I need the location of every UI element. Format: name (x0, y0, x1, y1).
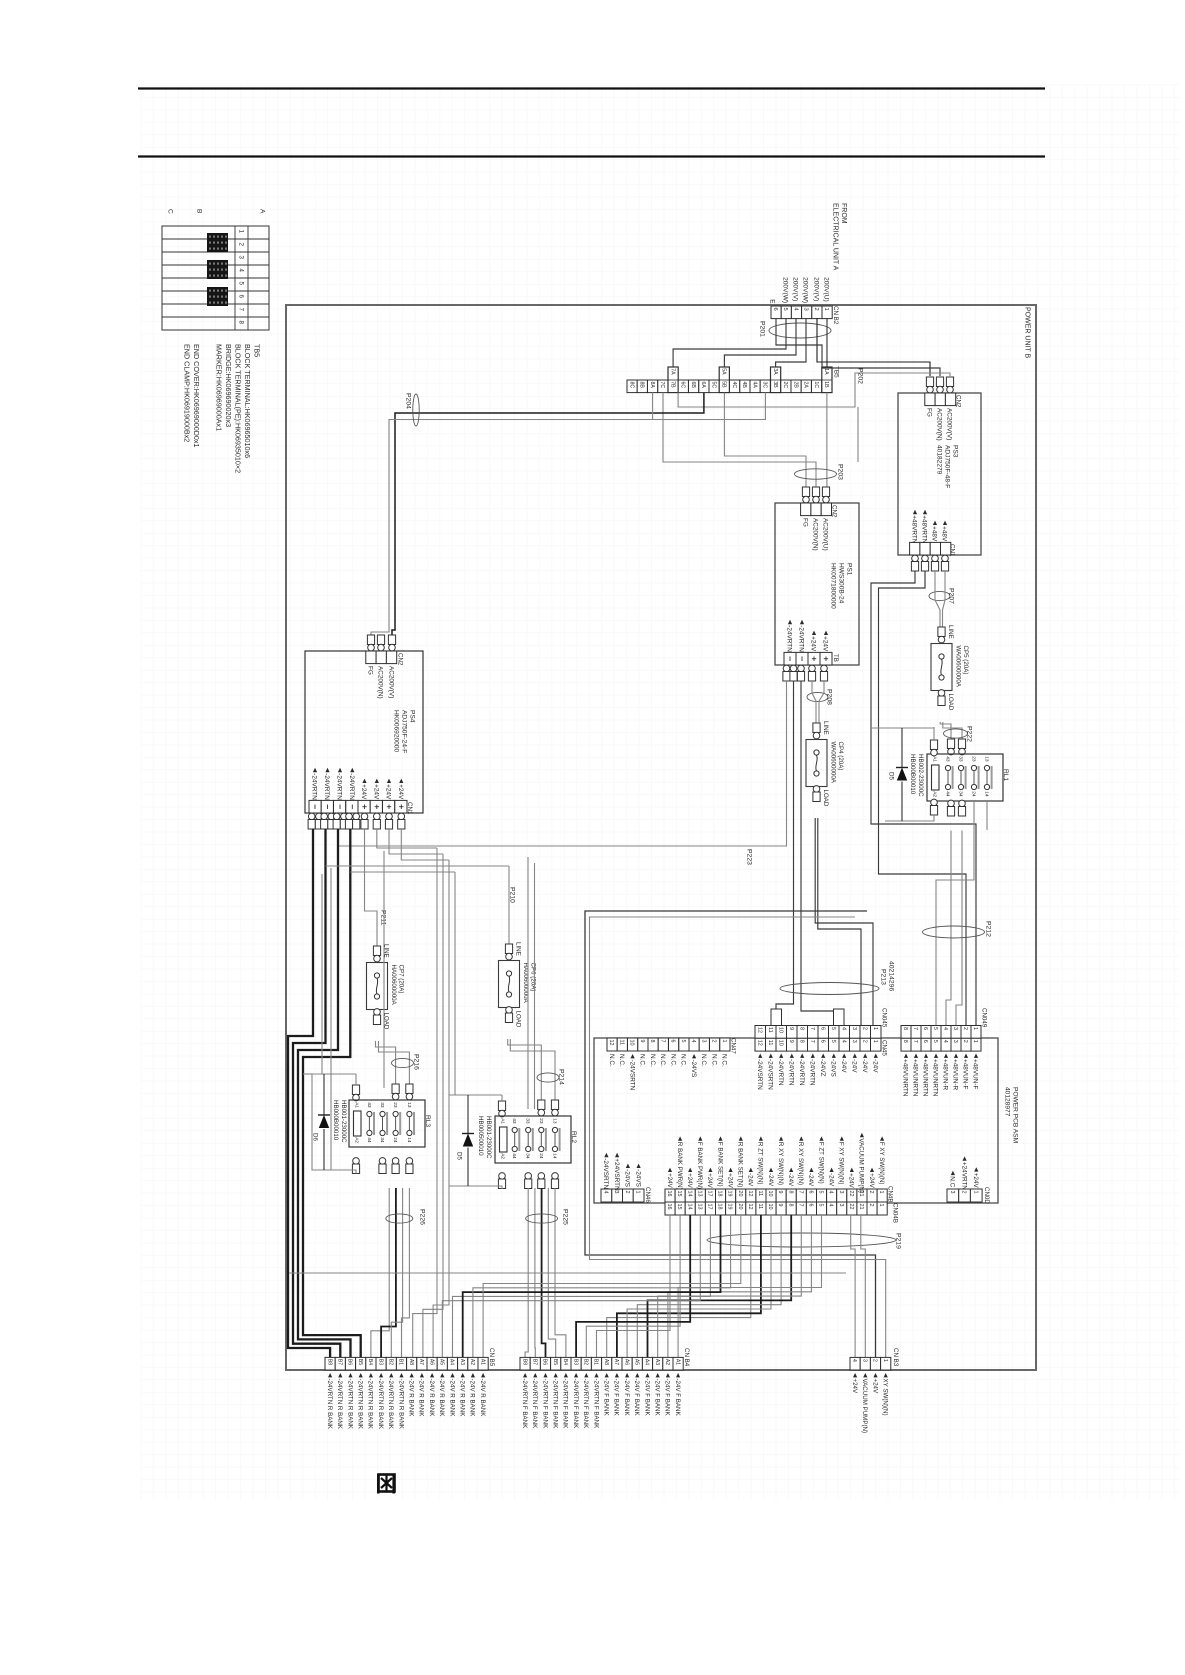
svg-text:CP6 (20A): CP6 (20A) (529, 963, 536, 992)
svg-text:4B: 4B (741, 382, 747, 389)
svg-text:4: 4 (840, 1027, 846, 1030)
svg-text:3: 3 (851, 1040, 857, 1043)
svg-text:A1: A1 (674, 1359, 680, 1365)
svg-text:200V(W): 200V(W) (782, 277, 789, 303)
svg-text:AC200V(N): AC200V(N) (377, 666, 384, 699)
svg-text:-24VRTN: -24VRTN (798, 1059, 805, 1086)
svg-text:B1: B1 (398, 1359, 404, 1365)
svg-text:43: 43 (366, 1102, 372, 1108)
wire TB5 3C jumper to PS4 CN2 (371, 393, 765, 652)
svg-text:200V(V): 200V(V) (813, 277, 820, 301)
svg-text:P212: P212 (985, 921, 992, 937)
relay RL1 (947, 739, 954, 749)
svg-text:END CLAMP:HK06919000Bx2: END CLAMP:HK06919000Bx2 (182, 344, 191, 442)
svg-text:-24V R BANK: -24V R BANK (428, 1379, 435, 1418)
svg-text:34: 34 (525, 1153, 531, 1159)
svg-text:AC200V(V): AC200V(V) (388, 666, 395, 698)
diode D5 across RL1 coil (901, 728, 903, 768)
svg-text:-24VSRTN: -24VSRTN (767, 1059, 774, 1090)
svg-text:6: 6 (819, 1027, 825, 1030)
svg-text:CN B2: CN B2 (832, 306, 839, 325)
svg-text:+48VRTN: +48VRTN (921, 515, 928, 544)
svg-text:CN2: CN2 (954, 395, 961, 408)
svg-text:40214296: 40214296 (888, 961, 895, 991)
svg-text:CN045: CN045 (880, 1008, 887, 1028)
svg-text:F BANK SET(N): F BANK SET(N) (716, 1142, 723, 1187)
wire CN B2-4 to TB5 5A (724, 318, 796, 367)
svg-text:+48VUN-F: +48VUN-F (962, 1059, 969, 1089)
svg-text:5: 5 (830, 1027, 836, 1030)
svg-text:B1: B1 (593, 1359, 599, 1365)
svg-text:-24VRTN F BANK: -24VRTN F BANK (531, 1379, 538, 1430)
cable marker P208 (807, 692, 828, 701)
svg-text:AC200V(N): AC200V(N) (812, 518, 819, 551)
svg-text:-24VRTN F BANK: -24VRTN F BANK (582, 1379, 589, 1430)
svg-text:-24VSRTN: -24VSRTN (756, 1059, 763, 1090)
svg-text:2: 2 (813, 308, 819, 311)
svg-text:44: 44 (511, 1153, 517, 1159)
svg-text:A7: A7 (613, 1359, 619, 1365)
svg-text:B8: B8 (521, 1359, 527, 1365)
svg-text:1: 1 (878, 1191, 884, 1194)
connector CN4B board side (665, 1189, 675, 1202)
svg-text:R XY SW(N)(N): R XY SW(N)(N) (777, 1142, 784, 1185)
svg-text:B2: B2 (583, 1359, 589, 1365)
wire P223 PS1 TB pin1 to -24V bus (338, 681, 787, 846)
svg-text:1: 1 (878, 1204, 884, 1207)
svg-text:6B: 6B (690, 382, 696, 389)
wire PS3 CN1 pin1 down left of RL1 to CN049 pin4 (871, 571, 976, 1026)
svg-text:P207: P207 (948, 588, 955, 604)
svg-text:+48VUN-F: +48VUN-F (972, 1059, 979, 1089)
svg-text:2: 2 (961, 1191, 967, 1194)
svg-text:-24V: -24V (807, 1173, 814, 1187)
svg-text:+24V: +24V (373, 784, 380, 800)
svg-text:-24VRTN F BANK: -24VRTN F BANK (562, 1379, 569, 1430)
svg-text:A8: A8 (408, 1359, 414, 1365)
connector CN2 of PS1 (802, 487, 809, 497)
wire CN B2-5 to TB5 7A (673, 318, 786, 367)
svg-text:P201: P201 (759, 321, 766, 337)
svg-text:24: 24 (538, 1153, 544, 1159)
wires bus verticals to CN B5 A cells (413, 1231, 437, 1358)
svg-text:LINE: LINE (382, 944, 389, 958)
svg-text:-24V R BANK: -24V R BANK (418, 1379, 425, 1418)
svg-text:200V(W): 200V(W) (802, 277, 809, 303)
svg-text:3A: 3A (772, 368, 778, 375)
connector CN B5 (325, 1357, 335, 1370)
svg-text:10: 10 (629, 1040, 635, 1046)
svg-text:HB001-23000C: HB001-23000C (340, 1100, 347, 1143)
svg-text:19: 19 (727, 1191, 733, 1197)
svg-text:WA00600000A: WA00600000A (829, 742, 836, 784)
svg-text:+24V: +24V (851, 1379, 858, 1394)
svg-text:+48VUN-R: +48VUN-R (952, 1059, 959, 1090)
wire -24VRTN black bus from PS4 (4 wires) (288, 829, 330, 1358)
svg-text:2: 2 (962, 1040, 968, 1043)
svg-text:P203: P203 (837, 464, 844, 480)
svg-text:WA00600000A: WA00600000A (954, 646, 961, 688)
svg-text:D6: D6 (311, 1133, 318, 1141)
svg-text:D5: D5 (455, 1152, 462, 1160)
svg-text:4: 4 (942, 1027, 948, 1030)
wire pair CP7 LOAD to RL3 via P216 (376, 1041, 396, 1084)
svg-text:R XY SW(N)(N): R XY SW(N)(N) (797, 1142, 804, 1185)
svg-text:200V(V): 200V(V) (792, 277, 799, 301)
svg-text:P211: P211 (380, 910, 387, 926)
svg-text:R BANK PWR(N): R BANK PWR(N) (676, 1142, 683, 1190)
connector CN049 cable side (901, 1026, 911, 1039)
svg-text:HA00600000A: HA00600000A (390, 965, 397, 1006)
svg-text:+48VUNRTN: +48VUNRTN (932, 1059, 939, 1097)
wire TB5 6A jumper to PS4 CN2 (black) (392, 393, 704, 652)
svg-text:44: 44 (366, 1137, 372, 1143)
svg-text:LOAD: LOAD (822, 790, 829, 807)
svg-text:-24VRTN R BANK: -24VRTN R BANK (377, 1379, 384, 1430)
svg-text:1: 1 (882, 1359, 888, 1362)
svg-text:11: 11 (757, 1204, 763, 1210)
svg-text:B6: B6 (347, 1359, 353, 1365)
wire -24V tap to CP6 (508, 866, 510, 944)
connector CN04B board side (901, 1038, 911, 1051)
wire CN B2-1 to TB5 1A (826, 318, 828, 367)
svg-text:7: 7 (912, 1040, 918, 1043)
wire RL1 contact 14 stub (986, 801, 988, 830)
svg-text:HB001-23000C: HB001-23000C (485, 1116, 492, 1159)
svg-text:B7: B7 (337, 1359, 343, 1365)
svg-text:A1: A1 (353, 1102, 359, 1108)
svg-text:A5: A5 (439, 1359, 445, 1365)
svg-text:B4: B4 (562, 1359, 568, 1365)
svg-text:3: 3 (851, 1027, 857, 1030)
svg-text:-24V: -24V (840, 1059, 847, 1073)
svg-text:24: 24 (392, 1137, 398, 1143)
svg-text:A7: A7 (418, 1359, 424, 1365)
connector TB of PS1 (784, 652, 796, 665)
svg-text:14: 14 (686, 1204, 692, 1210)
svg-text:B3: B3 (377, 1359, 383, 1365)
cable marker P212 (923, 926, 985, 938)
svg-text:R BANK SET(N): R BANK SET(N) (737, 1142, 744, 1187)
svg-text:2: 2 (711, 1040, 717, 1043)
svg-text:A1: A1 (479, 1359, 485, 1365)
svg-text:-24VRTN F BANK: -24VRTN F BANK (521, 1379, 528, 1430)
svg-text:1C: 1C (813, 382, 819, 389)
wire pair CP6 LOAD to RL2 via P214 (508, 1039, 542, 1100)
wire RL2 coil loop (501, 1095, 503, 1101)
svg-text:10: 10 (767, 1191, 773, 1197)
svg-text:8: 8 (787, 1204, 793, 1207)
wire TB5 7B to PS3 CN2 pin3 via P202 (678, 373, 950, 407)
svg-text:-24VS: -24VS (624, 1169, 631, 1187)
svg-text:AC200V(N): AC200V(N) (936, 408, 943, 441)
cable marker P219 (707, 1233, 896, 1247)
svg-text:-24V R BANK: -24V R BANK (408, 1379, 415, 1418)
svg-text:9: 9 (777, 1204, 783, 1207)
connector CN47 (607, 1038, 617, 1051)
svg-text:5B: 5B (721, 381, 727, 388)
svg-text:-24VRTN R BANK: -24VRTN R BANK (326, 1379, 333, 1430)
wire TB5 5C to PS1 CN2 left pin (724, 393, 806, 487)
svg-text:7: 7 (237, 308, 244, 312)
connector CN B4 (520, 1357, 530, 1370)
svg-text:P216: P216 (413, 1054, 420, 1070)
svg-text:12: 12 (756, 1040, 762, 1046)
svg-text:CN4B: CN4B (886, 1186, 893, 1203)
svg-text:11: 11 (767, 1040, 773, 1046)
svg-text:13: 13 (406, 1102, 412, 1108)
svg-text:CN1: CN1 (406, 802, 413, 815)
svg-text:PS1: PS1 (846, 563, 853, 576)
svg-text:3: 3 (803, 308, 809, 311)
svg-text:-24V F BANK: -24V F BANK (654, 1379, 661, 1417)
svg-text:34: 34 (379, 1137, 385, 1143)
svg-text:HB000B00010: HB000B00010 (909, 754, 916, 795)
svg-text:LINE: LINE (822, 721, 829, 735)
svg-text:6: 6 (808, 1204, 814, 1207)
svg-text:-24VRTN F BANK: -24VRTN F BANK (592, 1379, 599, 1430)
svg-text:FG: FG (926, 408, 933, 417)
svg-text:VACUUM PUMP(N): VACUUM PUMP(N) (858, 1138, 865, 1193)
wire RL1 coil A1 loop (933, 727, 935, 740)
pcb POWER PCB ASM (594, 1038, 998, 1203)
svg-text:5: 5 (237, 282, 244, 286)
svg-text:33: 33 (958, 756, 964, 762)
svg-text:14: 14 (552, 1153, 558, 1159)
relay RL3 (392, 1084, 399, 1094)
cable marker P204 (413, 394, 419, 426)
svg-text:A3: A3 (459, 1359, 465, 1365)
figure mark (379, 1475, 395, 1492)
svg-text:A6: A6 (428, 1359, 434, 1365)
wires CN04B to CN B3 cells 4 3 (851, 1215, 855, 1358)
svg-text:40182279: 40182279 (936, 445, 943, 475)
wire -24V bus tap to RL2 loop top (449, 872, 455, 1095)
svg-text:22: 22 (848, 1204, 854, 1210)
svg-text:N.C.: N.C. (721, 1054, 728, 1067)
svg-text:14: 14 (686, 1191, 692, 1197)
svg-text:5: 5 (932, 1027, 938, 1030)
svg-text:-24VRTN R BANK: -24VRTN R BANK (357, 1379, 364, 1430)
svg-text:9: 9 (777, 1191, 783, 1194)
svg-text:P208: P208 (826, 689, 833, 705)
svg-text:F XY SW(N)(N): F XY SW(N)(N) (878, 1142, 885, 1185)
svg-text:8A: 8A (649, 382, 655, 389)
svg-text:XY SW(N)(N): XY SW(N)(N) (882, 1379, 889, 1416)
svg-text:4: 4 (690, 1040, 696, 1043)
svg-text:16: 16 (666, 1204, 672, 1210)
svg-text:C: C (167, 209, 174, 214)
svg-text:+24VRTN: +24VRTN (960, 1162, 967, 1191)
svg-text:CN B3: CN B3 (892, 1348, 899, 1367)
svg-text:8: 8 (237, 321, 244, 325)
svg-text:-24VZ: -24VZ (819, 1059, 826, 1076)
svg-text:4: 4 (828, 1191, 834, 1194)
svg-text:5A: 5A (721, 368, 727, 375)
svg-text:+24V: +24V (686, 1173, 693, 1188)
svg-text:B5: B5 (357, 1359, 363, 1365)
svg-text:CN0D: CN0D (983, 1187, 990, 1204)
svg-text:4: 4 (828, 1204, 834, 1207)
svg-text:10: 10 (777, 1027, 783, 1033)
svg-text:43: 43 (945, 756, 951, 762)
connector CN2 of PS3 (926, 377, 933, 387)
svg-text:8: 8 (798, 1027, 804, 1030)
svg-text:3C: 3C (762, 382, 768, 389)
svg-text:34: 34 (958, 791, 964, 797)
svg-text:2: 2 (861, 1027, 867, 1030)
svg-text:-24V: -24V (767, 1173, 774, 1187)
svg-text:+48VRTN: +48VRTN (911, 515, 918, 544)
svg-text:6: 6 (922, 1040, 928, 1043)
svg-text:2: 2 (868, 1191, 874, 1194)
wire PS4 +24V pin6 down to bus right (377, 829, 437, 848)
svg-text:POWER UNIT B: POWER UNIT B (1024, 307, 1031, 359)
svg-text:-24VRTN: -24VRTN (348, 773, 355, 800)
wire PS3 CN1 pin2 down left of RL1 to CN049 pin3 (879, 571, 967, 1026)
svg-text:-24VSRTN: -24VSRTN (628, 1060, 635, 1091)
wire PS4 +24V pin8 to bus (401, 829, 449, 860)
svg-text:P210: P210 (509, 887, 516, 903)
svg-text:-24V R BANK: -24V R BANK (448, 1379, 455, 1418)
svg-text:8B: 8B (639, 382, 645, 389)
svg-text:6C: 6C (680, 382, 686, 389)
wire PS4 +24V pin5 to CP7 chain (365, 829, 378, 946)
svg-text:A2: A2 (499, 1153, 505, 1159)
svg-text:4: 4 (840, 1040, 846, 1043)
svg-text:CN04B: CN04B (891, 1203, 898, 1223)
wire RL3 coil feed verticals (321, 874, 323, 1074)
svg-text:-24V F BANK: -24V F BANK (643, 1379, 650, 1417)
svg-text:E: E (769, 299, 776, 304)
svg-text:4: 4 (942, 1040, 948, 1043)
svg-text:N.C.: N.C. (649, 1054, 656, 1067)
wire TB5 8A to P204 run (652, 393, 654, 420)
svg-text:A6: A6 (623, 1359, 629, 1365)
svg-text:-24VRTN: -24VRTN (336, 773, 343, 800)
svg-text:-24V F BANK: -24V F BANK (603, 1379, 610, 1417)
svg-text:LINE: LINE (514, 942, 521, 956)
wire RL3 coil loop (355, 1074, 357, 1085)
svg-text:A2: A2 (931, 791, 937, 797)
connector CN0D (947, 1189, 959, 1202)
svg-text:23: 23 (971, 756, 977, 762)
svg-text:CP7 (20A): CP7 (20A) (397, 965, 404, 994)
svg-text:1B: 1B (823, 381, 829, 388)
connector CN04B cable side (665, 1202, 675, 1215)
svg-text:FG: FG (802, 518, 809, 527)
wire CP5 LOAD to RL1 contacts via P222 (940, 722, 951, 739)
svg-text:7: 7 (660, 1040, 666, 1043)
svg-text:7: 7 (809, 1027, 815, 1030)
svg-text:6: 6 (670, 1040, 676, 1043)
svg-text:-24V R BANK: -24V R BANK (469, 1379, 476, 1418)
diode D5 across RL2 coil (467, 1095, 469, 1134)
svg-text:-24VRTN: -24VRTN (809, 1059, 816, 1086)
svg-text:LOAD: LOAD (947, 694, 954, 711)
svg-text:-24V R BANK: -24V R BANK (479, 1379, 486, 1418)
svg-text:+24V: +24V (868, 1173, 875, 1188)
svg-text:N.C.: N.C. (618, 1054, 625, 1067)
svg-text:20: 20 (737, 1204, 743, 1210)
svg-text:33: 33 (525, 1118, 531, 1124)
svg-text:P213: P213 (880, 969, 887, 985)
svg-text:21: 21 (858, 1204, 864, 1210)
cable marker P222 (944, 729, 968, 738)
wire bundle RL2 to CN B4 via P225 (525, 1188, 528, 1358)
svg-text:18: 18 (717, 1204, 723, 1210)
svg-text:-24VRTN R BANK: -24VRTN R BANK (387, 1379, 394, 1430)
faint grid (141, 85, 1180, 1500)
svg-text:N.C.: N.C. (710, 1054, 717, 1067)
wire TB5 1B to PS1 CN2 right pin (826, 393, 828, 487)
svg-text:FG: FG (367, 666, 374, 675)
svg-text:7C: 7C (659, 382, 665, 389)
svg-text:A5: A5 (634, 1359, 640, 1365)
svg-text:5: 5 (818, 1204, 824, 1207)
svg-text:2B: 2B (792, 382, 798, 389)
svg-text:2: 2 (868, 1204, 874, 1207)
svg-text:+48V: +48V (931, 526, 938, 542)
svg-text:CN45: CN45 (880, 1040, 887, 1056)
svg-text:A4: A4 (449, 1359, 455, 1365)
svg-text:8: 8 (787, 1191, 793, 1194)
svg-text:7: 7 (912, 1027, 918, 1030)
svg-text:N.C.: N.C. (680, 1054, 687, 1067)
svg-text:P223: P223 (746, 849, 753, 865)
svg-text:ADJ750F-24-F: ADJ750F-24-F (401, 710, 408, 753)
svg-text:VACUUM PUMP(N): VACUUM PUMP(N) (861, 1379, 868, 1434)
connector CN1 of PS3 (910, 542, 920, 555)
svg-text:B8: B8 (326, 1359, 332, 1365)
svg-text:12: 12 (756, 1027, 762, 1033)
svg-text:3: 3 (237, 256, 244, 260)
cable marker P203 (795, 469, 837, 479)
wire PS4 +24V pin7 to bus (389, 829, 443, 854)
svg-text:AC200V(V): AC200V(V) (946, 408, 953, 440)
svg-text:20: 20 (737, 1191, 743, 1197)
svg-text:N.C.: N.C. (608, 1054, 615, 1067)
svg-text:-24VRTN F BANK: -24VRTN F BANK (572, 1379, 579, 1430)
svg-text:2: 2 (624, 1191, 630, 1194)
svg-text:15: 15 (676, 1204, 682, 1210)
svg-text:6A: 6A (700, 382, 706, 389)
svg-text:LINE: LINE (947, 625, 954, 639)
svg-text:-24V R BANK: -24V R BANK (438, 1379, 445, 1418)
svg-text:-24V R BANK: -24V R BANK (459, 1379, 466, 1418)
svg-text:-24V: -24V (872, 1059, 879, 1073)
TB5 legend bridge blocks (207, 233, 228, 252)
svg-text:-24VSRTN: -24VSRTN (602, 1158, 609, 1189)
connector CN46 (601, 1189, 612, 1202)
svg-text:-24VRTN R BANK: -24VRTN R BANK (346, 1379, 353, 1430)
svg-text:B3: B3 (572, 1359, 578, 1365)
svg-text:2: 2 (237, 243, 244, 247)
svg-text:-24VS: -24VS (830, 1059, 837, 1077)
power supply PS4 ADJ750F-24-F (305, 651, 423, 813)
svg-text:2: 2 (962, 1027, 968, 1030)
svg-text:-24VRTN F BANK: -24VRTN F BANK (541, 1379, 548, 1430)
svg-text:+24V: +24V (706, 1173, 713, 1188)
svg-text:8: 8 (902, 1027, 908, 1030)
svg-text:A2: A2 (353, 1137, 359, 1143)
svg-text:4A: 4A (751, 382, 757, 389)
svg-text:B5: B5 (552, 1359, 558, 1365)
svg-text:2C: 2C (782, 382, 788, 389)
wire TB5 7C to PS1 CN2 middle pin (663, 393, 816, 487)
svg-text:+24V: +24V (972, 1173, 979, 1189)
cable marker P226 (386, 1214, 413, 1223)
